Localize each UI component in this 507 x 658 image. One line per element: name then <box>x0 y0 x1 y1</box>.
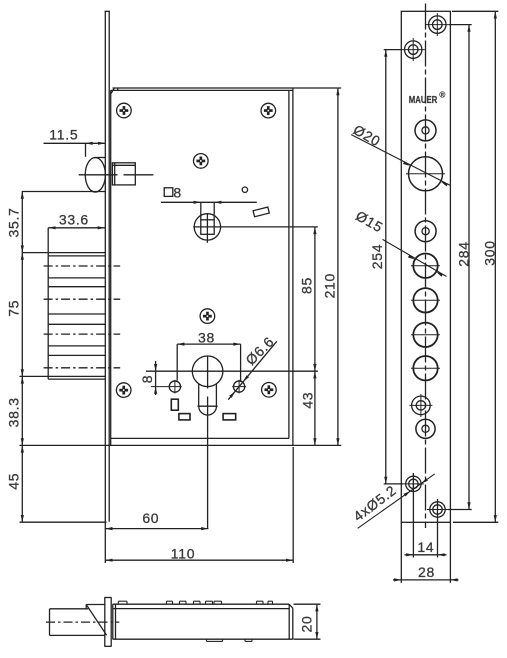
dia 6.6 leader <box>228 341 277 399</box>
4x5.2 arrows <box>404 478 428 496</box>
bottom view body top inner <box>113 608 290 610</box>
deadbolt stop rect vertical <box>171 399 178 410</box>
square-8 symbol <box>164 188 173 197</box>
svg-text:8: 8 <box>173 184 182 200</box>
bottom view latch top <box>86 604 105 606</box>
square-8 text <box>173 184 182 200</box>
bolt plate line 2 <box>48 286 105 288</box>
dim 60 line <box>105 528 208 530</box>
plate hole dia20 h line <box>406 173 445 175</box>
dim 38 extensions <box>177 344 240 381</box>
dim 14 arrows <box>406 553 445 556</box>
bolt center line 1 <box>44 265 121 267</box>
dim 110 arrows <box>105 559 293 562</box>
bottom view faceplate bar <box>104 598 111 647</box>
dim 11.5 text <box>49 127 78 143</box>
lock body top edge <box>111 89 293 91</box>
plate center line <box>425 4 427 529</box>
follower dim line <box>161 201 257 203</box>
dim 8 text <box>139 375 155 384</box>
dim 60 text <box>142 510 159 526</box>
dim 11.5 arrows <box>86 142 106 145</box>
svg-text:28: 28 <box>418 564 435 580</box>
bolt center line 2 <box>44 298 121 300</box>
dim 38 line <box>177 343 240 345</box>
svg-text:254: 254 <box>369 244 385 269</box>
fixing hole left (6.6) <box>168 380 182 394</box>
dim 20 line <box>316 604 318 639</box>
plate hole row 2 <box>411 323 440 347</box>
latch bolt ellipse <box>85 158 105 193</box>
plate screw hole upper-left (5.2) <box>402 38 425 61</box>
dim 8 arrows <box>154 364 157 394</box>
plate bottom extension <box>453 521 498 523</box>
svg-text:300: 300 <box>482 240 498 265</box>
lock body right edge outer <box>292 88 294 445</box>
4x5.2 text <box>350 482 399 524</box>
plate top extension <box>452 10 498 12</box>
dim 45 bottom extension <box>20 521 107 523</box>
dim 11.5 extension <box>85 143 87 157</box>
dim 110 right extension <box>292 447 294 563</box>
bottom view latch left <box>85 605 87 609</box>
dim 300 arrows <box>494 11 497 522</box>
bottom view body top outer <box>113 603 290 605</box>
bolt stack left edge / 33.6 extension <box>47 228 49 379</box>
bolt stack top extension <box>22 252 105 254</box>
bolt plate line 1 <box>48 277 105 279</box>
dim 43 arrows <box>313 371 316 445</box>
dia 6.6 arrows <box>229 375 249 398</box>
latch guide block <box>112 163 135 185</box>
dim 284 line <box>468 25 470 510</box>
svg-text:110: 110 <box>171 546 195 562</box>
plate hole small mid <box>415 221 436 242</box>
dia 6.6 text <box>242 333 277 368</box>
plate hole row 3 <box>411 356 440 380</box>
dim 210 arrows <box>336 88 339 445</box>
plate hole row 1 <box>411 288 440 312</box>
dim 14 line <box>405 554 447 556</box>
dim 284 arrows <box>467 25 470 510</box>
euro cylinder stem line <box>198 405 218 407</box>
dim 210 text <box>321 273 337 298</box>
dim 110 line <box>105 559 293 561</box>
dim 284 text <box>455 241 471 266</box>
faceplate bar back edge <box>108 11 110 522</box>
latch top line <box>94 157 106 159</box>
bolt stack bottom edge <box>48 378 105 380</box>
dim 254 text <box>369 244 385 269</box>
dim 43 line <box>314 371 316 445</box>
plate screw hole offset <box>409 394 432 417</box>
euro cylinder stem <box>199 384 217 406</box>
dim 60 arrows <box>105 527 208 530</box>
svg-text:210: 210 <box>321 273 337 298</box>
bolt stack bottom extension <box>20 375 106 377</box>
dia 20 text <box>351 121 384 149</box>
ext from bottom-right screw <box>448 509 472 511</box>
bolt plate line 5 <box>48 345 105 347</box>
bolt center line 4 <box>44 367 121 369</box>
dim 38 text <box>198 330 215 346</box>
plate hole dia20 <box>409 157 443 191</box>
4x5.2 leader <box>358 474 435 528</box>
bottom view latch bevel <box>86 605 106 636</box>
dim 28 line <box>393 579 459 581</box>
svg-text:11.5: 11.5 <box>49 127 78 143</box>
dim 8 line <box>155 361 157 395</box>
lock body top outer line / 210 extension <box>113 87 342 89</box>
latch center line <box>79 174 154 176</box>
dim 43 text <box>299 392 315 409</box>
screw upper-middle <box>194 154 209 169</box>
bottom view body chamfer <box>289 604 293 608</box>
dim 33.6 text <box>59 212 89 228</box>
bolt stack top edge <box>48 255 105 257</box>
bolt plate line 6 <box>48 354 105 356</box>
plate hole dia15 h line <box>411 265 440 267</box>
dim 300 text <box>482 240 498 265</box>
dia 20 leader <box>351 135 450 186</box>
svg-text:14: 14 <box>417 539 434 555</box>
dim 254 arrows <box>384 50 387 484</box>
svg-text:45: 45 <box>6 473 22 490</box>
bottom view shaft left end <box>49 609 51 636</box>
latch bottom line / 35.7 extension <box>22 191 106 193</box>
svg-text:38: 38 <box>198 330 215 346</box>
follower dim arrows <box>194 201 222 204</box>
dim 38.3 text <box>6 397 22 427</box>
bottom view body bottom <box>113 638 293 640</box>
dim 20 arrows <box>315 604 318 639</box>
dim 28 extensions <box>401 522 450 583</box>
follower square hole <box>201 220 214 235</box>
dim 33.6 line <box>48 227 105 229</box>
svg-text:20: 20 <box>298 616 314 633</box>
ext from bottom-left screw <box>384 483 403 485</box>
screw center <box>200 309 215 324</box>
svg-text:®: ® <box>439 91 445 100</box>
dia 15 arrows <box>408 255 443 277</box>
euro cylinder circle <box>192 356 223 387</box>
ext from upper-left screw <box>384 49 402 51</box>
follower circle <box>194 214 220 240</box>
cylinder h center line / 43-85 extension <box>146 370 318 372</box>
cylinder v center line <box>207 356 209 529</box>
plate screw hole bottom-right (5.2) <box>427 499 448 520</box>
dim 14 text <box>417 539 434 555</box>
bottom view top tabs <box>118 601 272 604</box>
bottom view center line <box>46 621 119 623</box>
dim 75 text <box>6 300 22 317</box>
fixing hole right (6.6) <box>232 380 246 394</box>
left chain arrows <box>21 192 24 523</box>
plate outline <box>401 11 450 522</box>
lock body left edge <box>110 90 112 445</box>
dim 254 line <box>385 50 387 484</box>
bottom view body right outer <box>292 608 294 639</box>
bolt center line 3 <box>44 333 121 335</box>
dim 110 text <box>171 546 195 562</box>
plate hole small bottom <box>416 419 435 438</box>
small pin circle <box>242 187 247 192</box>
dim 85 text <box>299 277 315 294</box>
lock body top-left chamfer <box>111 88 118 94</box>
dim 14 extensions <box>413 473 437 558</box>
svg-text:284: 284 <box>455 241 471 266</box>
dim 300 line <box>494 11 496 522</box>
bottom view shaft top <box>50 608 89 610</box>
follower v center line <box>206 213 208 242</box>
svg-text:60: 60 <box>142 510 159 526</box>
plate screw hole bottom-left (5.2) <box>403 473 424 494</box>
dim 45 text <box>6 473 22 490</box>
dia 15 leader <box>383 239 447 276</box>
dia 20 arrows <box>403 161 448 186</box>
plate hole dia15 <box>413 254 437 278</box>
svg-text:43: 43 <box>299 392 315 409</box>
slanted lever rect <box>253 207 269 217</box>
dim 38 arrows <box>177 343 240 346</box>
plate hole small top <box>415 120 436 141</box>
svg-text:75: 75 <box>6 300 22 317</box>
dim 20 extensions <box>294 604 321 639</box>
euro cylinder bottom arc <box>199 406 217 415</box>
lock body bottom inner line <box>111 437 289 439</box>
svg-text:38.3: 38.3 <box>6 397 22 427</box>
bottom view bottom tabs <box>207 639 253 641</box>
svg-text:85: 85 <box>299 277 315 294</box>
svg-text:MAUER: MAUER <box>409 94 438 105</box>
screw top-right <box>261 103 276 118</box>
faceplate bar front edge <box>104 11 106 563</box>
dia 15 text <box>353 207 386 235</box>
MAUER logo <box>409 91 446 106</box>
plate screw hole top-right (5.2) <box>426 13 449 36</box>
screw top-left <box>117 103 132 118</box>
lock body bottom outer line / extension <box>20 444 342 446</box>
dim 85 arrows <box>313 227 316 371</box>
bolt plate line 3 <box>48 313 105 315</box>
dim 210 line <box>337 88 339 445</box>
dim 28 arrows <box>394 578 458 581</box>
faceplate bar top cap <box>105 10 110 12</box>
dim 33.6 arrows <box>48 226 105 229</box>
deadbolt stop rect left <box>179 414 190 420</box>
lock body right edge inner <box>288 90 290 438</box>
dim 20 text <box>298 616 314 633</box>
bottom view body left <box>113 604 116 639</box>
svg-text:35.7: 35.7 <box>6 207 22 237</box>
left chain dimension line <box>21 192 23 523</box>
deadbolt stop rect right <box>223 414 236 420</box>
bottom view body right inner <box>288 604 290 639</box>
svg-text:8: 8 <box>139 375 155 384</box>
dim 11.5 line <box>44 142 106 144</box>
dim 28 text <box>418 564 435 580</box>
dim 8 bottom tick <box>151 386 168 388</box>
dim 85 line <box>314 227 316 371</box>
follower shaft lines <box>201 202 214 220</box>
ext from top-right screw <box>449 24 472 26</box>
screw bottom-left <box>116 383 131 398</box>
svg-text:33.6: 33.6 <box>59 212 89 228</box>
bolt plate line 4 <box>48 323 105 325</box>
follower h center line / 85 extension <box>193 226 318 228</box>
screw bottom-right <box>262 383 277 398</box>
bottom view shaft bottom <box>50 634 105 636</box>
dim 35.7 text <box>6 207 22 237</box>
